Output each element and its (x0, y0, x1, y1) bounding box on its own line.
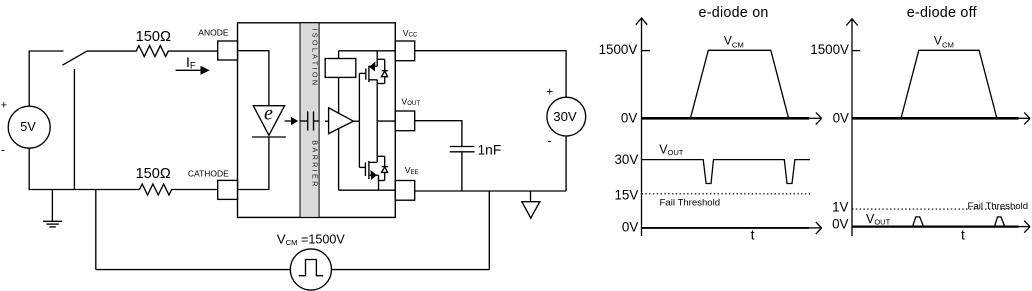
body diode D2 (377, 156, 388, 180)
arrow light emission to barrier cap (285, 117, 299, 126)
wire amp output to gate bus (353, 120, 359, 122)
waveform VOUT right bump 2 (995, 217, 1005, 227)
axis x right upper thick (852, 112, 1030, 124)
ground primary (43, 190, 62, 227)
wire LED cathode to cathode pin (238, 137, 269, 190)
wire supply drop through UVLO block (338, 51, 340, 59)
svg-text:Fail Threshold: Fail Threshold (968, 201, 1029, 212)
svg-text:1nF: 1nF (478, 142, 502, 157)
isolation barrier bar (300, 23, 320, 218)
wire VCC pin to 30V source (415, 51, 566, 97)
wire switch lower throw to ground rail (73, 69, 75, 190)
waveform VOUT left with dips (642, 160, 811, 184)
node VOUT junction wire (377, 120, 395, 122)
wire Vee rail secondary (339, 189, 396, 191)
svg-text:e-diode on: e-diode on (699, 5, 769, 21)
capacitor barrier coupling (300, 111, 319, 130)
arrow IF (176, 66, 210, 75)
svg-text:0V: 0V (833, 111, 849, 126)
svg-text:-: - (1, 142, 5, 156)
wire 30V bottom (565, 136, 567, 191)
svg-text:0V: 0V (622, 220, 638, 235)
svg-text:BARRIER: BARRIER (311, 140, 320, 188)
axis x left upper thick (642, 112, 822, 124)
waveform VOUT right bump 1 (913, 217, 924, 227)
ground secondary open triangle (522, 191, 540, 218)
pin VEE (395, 165, 418, 200)
svg-text:ANODE: ANODE (198, 28, 229, 38)
svg-text:30V: 30V (553, 109, 577, 124)
voltage source V2 30V (546, 87, 585, 149)
IC body U1 (238, 23, 396, 218)
svg-text:5V: 5V (20, 119, 36, 134)
wire amp input stub (325, 120, 329, 122)
svg-text:+: + (546, 87, 553, 99)
wire gate bus (358, 73, 360, 167)
voltage source V1 5V (1, 99, 51, 156)
wire VEE pin to 30V bottom (415, 190, 566, 192)
wire 5V bottom and ground rail (29, 148, 139, 189)
wire Vcc rail secondary (339, 50, 396, 52)
svg-text:150Ω: 150Ω (136, 166, 171, 182)
resistor R2 150 ohm bottom (136, 166, 218, 195)
svg-text:0V: 0V (832, 217, 848, 232)
svg-text:1500V: 1500V (810, 42, 849, 57)
axis x right lower thick (852, 221, 1030, 233)
wire anode pin to LED (238, 51, 269, 106)
op-amp U2 (329, 108, 354, 134)
body diode D1 (377, 59, 388, 83)
svg-text:e-diode off: e-diode off (907, 5, 977, 21)
fail threshold dotted right (852, 208, 1016, 210)
svg-text:0V: 0V (621, 111, 637, 126)
wire VOUT pin to capacitor (415, 121, 462, 147)
source VCM pulse generator (277, 232, 346, 291)
fail threshold dotted left (642, 193, 811, 195)
transistor Q1 top PMOS (359, 51, 377, 121)
wire 5V top to switch (29, 51, 63, 106)
pin VOUT (395, 96, 420, 130)
pin CATHODE (188, 169, 238, 200)
svg-text:15V: 15V (614, 187, 638, 202)
capacitor C1 1nF (450, 142, 502, 191)
axis x left lower thick (642, 222, 822, 234)
svg-text:+: + (1, 99, 7, 111)
switch SW1 blade (62, 51, 87, 65)
svg-text:1V: 1V (832, 200, 848, 215)
axis y left upper (636, 18, 650, 119)
svg-text:t: t (751, 227, 755, 243)
resistor R1 150 ohm top (87, 29, 218, 57)
wire Vcm tap right (488, 191, 490, 270)
axis y right lower (851, 118, 853, 236)
LED e-diode D3 (252, 103, 286, 137)
pin ANODE (198, 28, 237, 61)
svg-text:t: t (961, 227, 965, 243)
block UVLO U3 (325, 59, 356, 78)
svg-text:30V: 30V (614, 152, 638, 167)
axis y left lower (641, 118, 643, 236)
wire Vcm tap left (95, 190, 97, 270)
svg-text:150Ω: 150Ω (136, 29, 171, 45)
svg-text:1500V: 1500V (599, 42, 638, 57)
wire Vcm bottom left (96, 269, 290, 271)
svg-text:CATHODE: CATHODE (188, 169, 229, 179)
pin VCC (395, 28, 418, 61)
wire Vcm bottom right (332, 269, 490, 271)
svg-text:e: e (264, 103, 273, 125)
svg-text:Fail Threshold: Fail Threshold (660, 197, 721, 208)
transistor Q2 bottom NMOS (359, 121, 378, 190)
svg-text:-: - (547, 134, 551, 148)
label IF current (186, 54, 196, 72)
axis y right upper (846, 19, 860, 119)
svg-text:ISOLATION: ISOLATION (311, 28, 320, 87)
waveform VCM trapezoid right (901, 50, 997, 118)
waveform VCM trapezoid left (690, 50, 788, 118)
